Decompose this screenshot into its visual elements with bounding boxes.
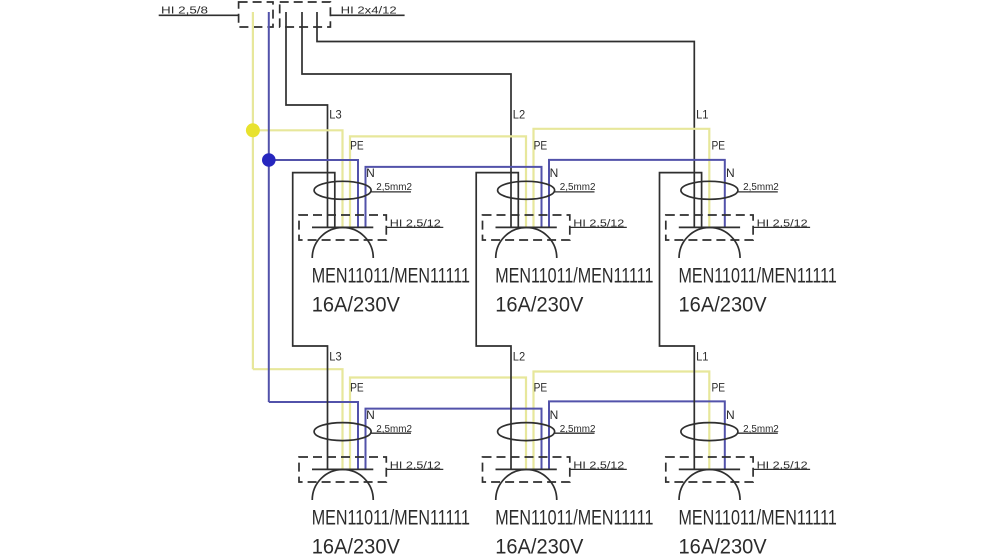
svg-text:16A/230V: 16A/230V bbox=[495, 294, 583, 317]
svg-text:2,5mm2: 2,5mm2 bbox=[743, 182, 779, 193]
svg-text:PE: PE bbox=[534, 138, 548, 152]
svg-text:L1: L1 bbox=[696, 350, 709, 364]
svg-text:HI 2,5/12: HI 2,5/12 bbox=[757, 460, 809, 471]
svg-text:MEN11011/MEN11111: MEN11011/MEN11111 bbox=[495, 264, 653, 287]
svg-text:L3: L3 bbox=[329, 350, 342, 364]
svg-text:N: N bbox=[366, 166, 375, 180]
svg-text:L3: L3 bbox=[329, 108, 342, 122]
svg-text:MEN11011/MEN11111: MEN11011/MEN11111 bbox=[679, 506, 837, 529]
svg-text:PE: PE bbox=[712, 138, 726, 152]
svg-text:L1: L1 bbox=[696, 108, 709, 122]
svg-text:PE: PE bbox=[350, 138, 364, 152]
svg-text:L2: L2 bbox=[513, 108, 526, 122]
svg-text:MEN11011/MEN11111: MEN11011/MEN11111 bbox=[679, 264, 837, 287]
svg-text:N: N bbox=[366, 408, 375, 422]
svg-text:HI 2,5/12: HI 2,5/12 bbox=[390, 218, 442, 229]
svg-text:MEN11011/MEN11111: MEN11011/MEN11111 bbox=[495, 506, 653, 529]
svg-text:16A/230V: 16A/230V bbox=[312, 294, 400, 317]
svg-text:L2: L2 bbox=[513, 350, 526, 364]
svg-text:HI 2x4/12: HI 2x4/12 bbox=[341, 6, 398, 17]
svg-text:HI 2,5/12: HI 2,5/12 bbox=[573, 460, 625, 471]
svg-text:2,5mm2: 2,5mm2 bbox=[560, 182, 596, 193]
svg-text:HI 2,5/12: HI 2,5/12 bbox=[757, 218, 809, 229]
svg-text:PE: PE bbox=[350, 380, 364, 394]
svg-text:HI 2,5/12: HI 2,5/12 bbox=[573, 218, 625, 229]
svg-text:2,5mm2: 2,5mm2 bbox=[376, 182, 412, 193]
svg-text:N: N bbox=[726, 408, 735, 422]
svg-text:HI 2,5/8: HI 2,5/8 bbox=[161, 6, 209, 17]
svg-text:2,5mm2: 2,5mm2 bbox=[376, 424, 412, 435]
svg-text:16A/230V: 16A/230V bbox=[312, 536, 400, 555]
svg-text:16A/230V: 16A/230V bbox=[495, 536, 583, 555]
svg-text:N: N bbox=[550, 166, 559, 180]
svg-text:PE: PE bbox=[712, 380, 726, 394]
svg-text:2,5mm2: 2,5mm2 bbox=[560, 424, 596, 435]
svg-text:PE: PE bbox=[534, 380, 548, 394]
svg-text:16A/230V: 16A/230V bbox=[679, 536, 767, 555]
svg-text:HI 2,5/12: HI 2,5/12 bbox=[390, 460, 442, 471]
svg-text:N: N bbox=[550, 408, 559, 422]
svg-text:MEN11011/MEN11111: MEN11011/MEN11111 bbox=[312, 506, 470, 529]
svg-text:N: N bbox=[726, 166, 735, 180]
svg-text:MEN11011/MEN11111: MEN11011/MEN11111 bbox=[312, 264, 470, 287]
svg-text:16A/230V: 16A/230V bbox=[679, 294, 767, 317]
svg-text:2,5mm2: 2,5mm2 bbox=[743, 424, 779, 435]
